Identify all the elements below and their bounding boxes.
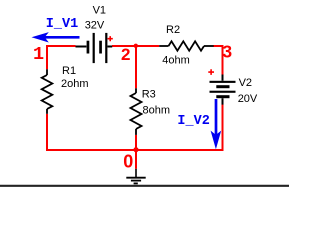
battery V1 [76, 33, 113, 63]
wire ground stub [135, 149, 137, 169]
wire bottom horizontal (node 0 net) [46, 149, 224, 151]
resistor R3 [131, 88, 142, 135]
svg-text:I_V1: I_V1 [46, 17, 78, 32]
svg-text:R1: R1 [62, 65, 76, 77]
svg-text:32V: 32V [85, 20, 105, 32]
svg-text:2: 2 [121, 45, 130, 64]
svg-text:4ohm: 4ohm [162, 55, 190, 67]
resistor R1 [42, 69, 53, 114]
svg-text:1: 1 [33, 44, 44, 65]
svg-text:I_V2: I_V2 [177, 114, 209, 129]
wire R2 to node3 corner down to V2 [213, 45, 223, 75]
bottom separator line [0, 185, 289, 187]
V2 plus sign [208, 69, 214, 75]
current arrow I_V2 [211, 99, 222, 149]
junction node 2 [134, 44, 138, 48]
current arrow I_V1 [32, 32, 80, 42]
ground [126, 169, 145, 184]
wire V2 minus down to bottom-right corner [222, 104, 224, 151]
wire R3 bottom to node 0 [135, 135, 137, 150]
battery V2 [210, 75, 236, 105]
junction node 0 [133, 147, 138, 152]
svg-text:0: 0 [123, 152, 133, 172]
svg-text:R3: R3 [142, 89, 156, 101]
resistor R2 [159, 41, 213, 50]
svg-text:2ohm: 2ohm [61, 78, 89, 90]
wire below R1 down to bottom-left corner [46, 114, 48, 151]
svg-text:20V: 20V [238, 93, 258, 105]
wire V1 plus to R2 [112, 45, 159, 47]
svg-text:8ohm: 8ohm [143, 105, 171, 117]
svg-text:V1: V1 [93, 4, 106, 16]
wire node2 down to R3 [135, 46, 137, 88]
svg-text:R2: R2 [166, 24, 180, 36]
wire node1 corner: vertical + top-left horizontal to V1 [47, 45, 76, 69]
svg-text:3: 3 [222, 42, 232, 62]
svg-text:V2: V2 [239, 77, 252, 89]
V1 plus sign [108, 36, 113, 41]
